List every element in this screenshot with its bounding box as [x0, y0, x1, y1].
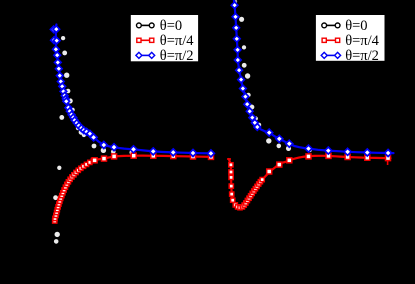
svg-text:θ=π/2: θ=π/2	[160, 48, 194, 64]
svg-text:θ=π/4: θ=π/4	[160, 33, 194, 49]
svg-text:θ=π/2: θ=π/2	[345, 48, 379, 64]
svg-text:θ=π/4: θ=π/4	[345, 33, 379, 49]
svg-text:θ=0: θ=0	[345, 18, 367, 34]
svg-text:θ=0: θ=0	[160, 18, 182, 34]
